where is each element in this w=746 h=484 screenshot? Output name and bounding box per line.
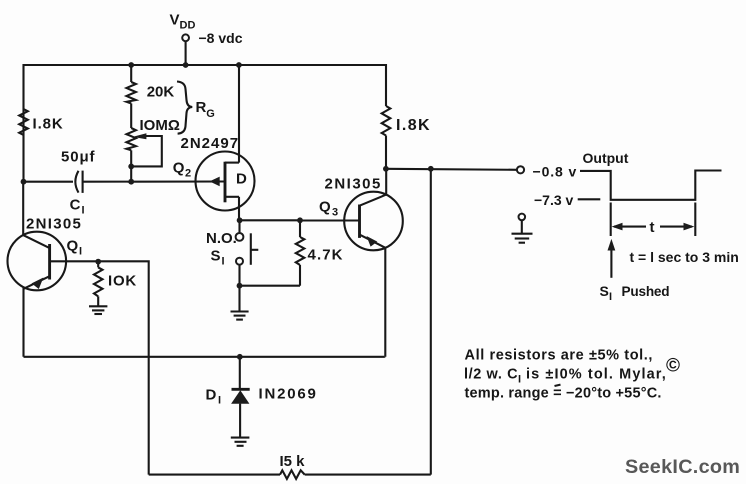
svg-text:Q: Q xyxy=(173,160,185,177)
svg-text:is ±I0% tol. Mylar,: is ±I0% tol. Mylar, xyxy=(526,367,667,383)
svg-text:2NI305: 2NI305 xyxy=(325,176,382,193)
svg-text:Pushed: Pushed xyxy=(622,284,670,299)
svg-text:IOMΩ: IOMΩ xyxy=(140,117,180,134)
svg-text:All resistors are ±5% tol.,: All resistors are ±5% tol., xyxy=(465,348,654,364)
svg-text:3: 3 xyxy=(332,207,338,219)
svg-text:Q: Q xyxy=(67,238,79,255)
svg-text:I: I xyxy=(518,374,521,386)
svg-text:G: G xyxy=(206,108,215,120)
svg-text:DD: DD xyxy=(180,20,196,32)
svg-text:I: I xyxy=(218,395,221,407)
svg-text:Q: Q xyxy=(319,199,331,216)
svg-text:IN2069: IN2069 xyxy=(259,386,318,403)
svg-text:Output: Output xyxy=(583,150,629,166)
svg-text:2: 2 xyxy=(185,168,191,180)
svg-text:I5 k: I5 k xyxy=(280,453,306,470)
svg-text:l/2 w. C: l/2 w. C xyxy=(464,367,518,383)
svg-text:2NI305: 2NI305 xyxy=(26,216,82,233)
svg-text:©: © xyxy=(666,356,680,377)
svg-text:−8 vdc: −8 vdc xyxy=(199,30,243,46)
svg-text:I: I xyxy=(609,291,612,303)
svg-text:2N2497: 2N2497 xyxy=(181,135,240,152)
svg-text:20K: 20K xyxy=(147,84,175,101)
svg-text:S: S xyxy=(211,248,221,265)
svg-text:V: V xyxy=(170,12,180,29)
svg-text:IOK: IOK xyxy=(108,273,137,290)
svg-text:t = l sec to 3 min: t = l sec to 3 min xyxy=(630,249,739,265)
svg-text:I.8K: I.8K xyxy=(33,116,64,133)
svg-text:4.7K: 4.7K xyxy=(308,247,344,264)
svg-text:50μf: 50μf xyxy=(61,149,96,166)
svg-text:R: R xyxy=(196,99,207,116)
svg-text:I: I xyxy=(79,246,82,258)
svg-text:SeekIC.com: SeekIC.com xyxy=(625,456,740,478)
svg-text:t: t xyxy=(650,219,655,236)
svg-text:D: D xyxy=(206,387,217,404)
svg-text:−7.3 v: −7.3 v xyxy=(534,192,574,208)
svg-text:D: D xyxy=(236,171,247,188)
svg-text:C: C xyxy=(70,197,81,214)
svg-text:N.O.: N.O. xyxy=(206,230,237,247)
svg-text:−0.8 v: −0.8 v xyxy=(533,164,578,180)
svg-text:temp. range = −20°to +55°C.: temp. range = −20°to +55°C. xyxy=(465,386,662,402)
svg-text:S: S xyxy=(600,283,609,299)
svg-text:I: I xyxy=(222,256,225,268)
svg-text:I.8K: I.8K xyxy=(396,117,431,134)
